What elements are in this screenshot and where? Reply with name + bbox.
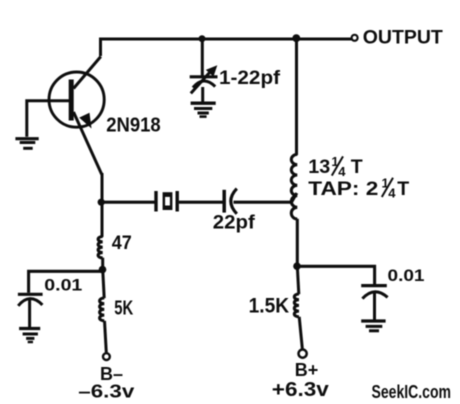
wire: feedback node to crystal (101, 201, 155, 204)
ground: base ground symbol (15, 139, 38, 149)
svg-text:1-22pf: 1-22pf (219, 67, 281, 89)
transistor Q1 2N918 body circle (49, 72, 104, 127)
svg-text:0.01: 0.01 (388, 266, 425, 285)
svg-text:T: T (397, 178, 409, 200)
svg-text:SeekIC.com: SeekIC.com (372, 382, 452, 402)
resistor R2 5K (squiggle) (100, 298, 105, 321)
capacitor C4 0.01 flat plate (right) (361, 284, 387, 287)
crystal Y1 left plate (154, 191, 157, 212)
wire: junction down to resistor 5K (103, 271, 104, 298)
ground: left bypass ground symbol (19, 329, 40, 343)
wire: top rail from collector corner to output terminal (101, 39, 353, 56)
node: junction top rail / variable capacitor branch (199, 35, 206, 42)
ground: right decoupling ground symbol (361, 321, 385, 331)
svg-text:B+: B+ (295, 360, 319, 380)
capacitor C2 22pf curved plate (231, 189, 237, 214)
capacitor C1 1-22pf top flat plate (190, 75, 218, 78)
transistor Q1 base bar (69, 80, 74, 121)
node: junction collector supply / decoupling cap (293, 262, 301, 270)
node: junction emitter bias / bypass cap (99, 266, 107, 274)
capacitor C1 1-22pf bottom curved plate (193, 81, 215, 88)
terminal: B+ open circle (299, 350, 307, 358)
svg-text:47: 47 (112, 233, 132, 254)
wire: coil bottom to decoupling junction (296, 219, 299, 266)
svg-text:4: 4 (388, 185, 396, 200)
wire: variable capacitor to ground (201, 87, 204, 102)
svg-text:+6.3v: +6.3v (272, 379, 330, 401)
label: 13 1/4 T (308, 154, 363, 179)
arrow: variable capacitor adjustment arrow (191, 69, 213, 93)
node: junction top rail / tank branch (292, 34, 300, 42)
ground: variable capacitor ground symbol (191, 103, 216, 116)
svg-text:1.5K: 1.5K (249, 295, 290, 318)
wire: variable capacitor branch from top rail (201, 39, 204, 76)
crystal Y1 body box (163, 192, 173, 210)
crystal Y1 right plate (175, 191, 178, 212)
inductor L1 coil 13 1/4 T (291, 154, 297, 219)
label: TAP: 2 1/4 T (308, 176, 409, 201)
wire: crystal to capacitor 22pf (179, 201, 223, 204)
svg-text:5K: 5K (114, 298, 133, 320)
wire: junction down to resistor 1.5K (297, 266, 299, 294)
wire: decoupling branch to 0.01 capacitor (right) (297, 266, 375, 284)
capacitor C3 0.01 curved plate (left) (18, 299, 42, 306)
wire: emitter vertical down to feedback node (101, 173, 104, 237)
capacitor C3 0.01 flat plate (left) (18, 293, 43, 296)
svg-text:–6.3v: –6.3v (78, 381, 135, 402)
resistor R1 47 (squiggle) (98, 237, 103, 258)
terminal: OUTPUT open circle (352, 35, 358, 41)
svg-text:22pf: 22pf (213, 211, 256, 233)
wire: base lead to ground (27, 101, 70, 137)
wire: capacitor 22pf to coil tap (234, 193, 297, 202)
wire: capacitor C4 to ground (373, 293, 376, 320)
svg-text:T: T (351, 156, 363, 178)
svg-text:OUTPUT: OUTPUT (363, 27, 443, 49)
svg-text:2N918: 2N918 (106, 115, 161, 137)
resistor R3 1.5K (squiggle) (294, 294, 299, 317)
wire: collector lead (diagonal up to top rail) (74, 57, 101, 89)
wire: tank branch vertical from top rail to coil (295, 39, 298, 155)
svg-text:0.01: 0.01 (44, 276, 82, 295)
wire: resistor 5K to B- terminal (105, 321, 107, 353)
wire: resistor 1.5K to B+ terminal (299, 317, 302, 350)
svg-text:TAP: 2: TAP: 2 (308, 178, 378, 200)
wire: bypass branch to 0.01 capacitor (left) (29, 271, 103, 293)
wire: resistor 47 to bypass junction (101, 258, 104, 268)
svg-text:13: 13 (308, 156, 330, 178)
arrow: emitter NPN arrowhead (79, 113, 91, 129)
wire: capacitor C3 to ground (28, 300, 31, 327)
capacitor C4 0.01 curved plate (right) (362, 292, 387, 299)
wire: emitter lead (diagonal down) (74, 112, 103, 175)
capacitor C2 22pf flat plate (222, 190, 226, 213)
terminal: B- open circle (103, 353, 110, 360)
node: emitter / crystal feedback junction (98, 199, 105, 206)
